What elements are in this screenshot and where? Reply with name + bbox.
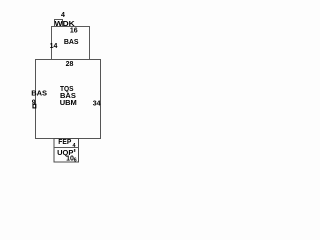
svg-text:28: 28 xyxy=(66,61,74,68)
small bar below 9 xyxy=(33,104,36,108)
upper BAS box xyxy=(52,27,90,60)
svg-text:BAS: BAS xyxy=(31,89,47,98)
svg-text:FEP: FEP xyxy=(58,137,71,146)
main box (TQS/BAS/UBM) xyxy=(36,60,101,139)
svg-text:14: 14 xyxy=(50,43,58,50)
divider between FEP and UQP xyxy=(54,147,79,149)
svg-text:6: 6 xyxy=(74,158,77,164)
svg-text:UBM: UBM xyxy=(60,98,77,107)
small mark right of UQP xyxy=(74,149,75,152)
svg-text:BAS: BAS xyxy=(64,37,79,46)
svg-text:9: 9 xyxy=(32,99,36,106)
svg-text:16: 16 xyxy=(70,27,78,34)
svg-text:34: 34 xyxy=(93,101,101,108)
FEP/UQP box xyxy=(54,139,79,163)
wood deck box WDK xyxy=(55,20,63,27)
